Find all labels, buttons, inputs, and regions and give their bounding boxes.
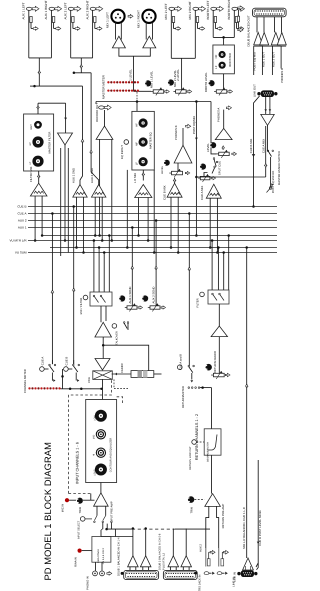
- svg-text:PHONO IN: PHONO IN: [87, 576, 90, 590]
- arrow U11 up: [90, 150, 93, 153]
- wire riaa down legs: [95, 562, 97, 571]
- connector DB25 DSUB IN 1: [124, 570, 159, 579]
- wire riaa up: [100, 530, 102, 537]
- wire dsub1 risers: [132, 529, 134, 556]
- svg-text:PHONES B: PHONES B: [174, 125, 178, 140]
- wire AUX 2 RIGHT feed: [92, 10, 94, 58]
- svg-text:LEVEL: LEVEL: [206, 143, 210, 152]
- bus line AUX 2: [28, 220, 277, 222]
- svg-text:CH 3,4,5 ONLY: CH 3,4,5 ONLY: [102, 547, 105, 564]
- jack tap arrow BOOTH RIGHT: [239, 27, 244, 31]
- op-amp U19 channel amp: [95, 322, 112, 337]
- arrow mix lr up: [245, 384, 248, 387]
- wire AUX 1 LEFT tap: [30, 23, 32, 29]
- arrow AUX1 up: [38, 71, 41, 74]
- jack PHONES A: [226, 106, 231, 110]
- jack tap arrow AUX 1 LEFT: [33, 27, 38, 31]
- svg-text:FADER: FADER: [120, 363, 124, 372]
- wire aux2 send riser: [155, 221, 157, 306]
- wire dsub feed 4: [280, 46, 282, 68]
- svg-text:SPLIT CUE: SPLIT CUE: [219, 161, 222, 175]
- wire filter return out: [64, 145, 66, 241]
- wire AUX2 rail: [74, 72, 91, 74]
- svg-text:MIC / FILTER: MIC / FILTER: [80, 298, 83, 315]
- node mic a: [93, 239, 96, 242]
- pot ch hi: [96, 430, 105, 439]
- wire return trim dash: [195, 499, 205, 501]
- svg-text:RETURN/METER: RETURN/METER: [182, 386, 185, 408]
- node mix lr bus: [245, 246, 248, 249]
- jack tap arrow AUX 2 LEFT: [75, 27, 80, 31]
- wire post eq cont: [195, 177, 197, 236]
- jack J1 AUX 1 LEFT: [26, 7, 32, 10]
- svg-text:AUX 2 OUT: AUX 2 OUT: [271, 52, 275, 67]
- wire stray vert D: [153, 170, 155, 253]
- pot MIX 1 LEVEL: [153, 90, 164, 93]
- op-amp U16 CUE A MIX: [206, 184, 221, 198]
- switch input select a: [94, 516, 97, 521]
- node AUX1 feed: [33, 85, 36, 88]
- wire dsub1 pins: [129, 567, 131, 571]
- connector XLR1 MIX 1 LEFT: [111, 10, 124, 23]
- control return filter knob: [200, 292, 205, 297]
- arrow cue b out: [75, 373, 77, 378]
- pot filter LF: [32, 156, 43, 167]
- switch cue a: [49, 364, 51, 366]
- wire channel amp out: [102, 337, 104, 359]
- wire mic wires: [93, 241, 95, 293]
- svg-text:MIX L,R BALANCED, CUE 1 L,R: MIX L,R BALANCED, CUE 1 L,R: [242, 507, 246, 549]
- node rail posteq: [195, 100, 198, 103]
- arrow link pin b: [269, 109, 272, 111]
- pot PHONES A LEVEL: [219, 152, 230, 155]
- op-amp U2 mix1 R driver: [143, 36, 156, 48]
- box BOOSTER: [213, 45, 235, 74]
- wire select feed line2: [175, 528, 210, 530]
- op-amp U10 AUX 1 SND: [73, 185, 87, 198]
- svg-text:MIX 1 LEFT: MIX 1 LEFT: [106, 12, 110, 28]
- node cm a: [69, 388, 72, 391]
- control mic filter knob: [83, 295, 88, 300]
- op-amp U12 LR MIX: [135, 185, 152, 198]
- wire preamp legs: [96, 506, 98, 515]
- jack PHONO L: [93, 571, 98, 576]
- bus line CUE A: [28, 213, 277, 215]
- jack tap arrow MIX 2 RIGHT: [200, 27, 205, 31]
- switch cue b: [73, 364, 75, 366]
- jack BOOTH RIGHT: [232, 7, 238, 10]
- svg-text:RECORD OUT: RECORD OUT: [95, 103, 99, 122]
- arrow aux2 send: [155, 266, 158, 269]
- wire eq to rail: [136, 102, 138, 112]
- wire MIX 2 RIGHT tap: [197, 23, 199, 29]
- svg-text:MIX 2 LEVEL: MIX 2 LEVEL: [173, 70, 177, 87]
- svg-text:BOOTH RIGHT: BOOTH RIGHT: [227, 0, 231, 20]
- wire rm link: [200, 387, 212, 389]
- op-amp U24 dsub2 rx a: [168, 556, 179, 567]
- jack PHONO R: [100, 571, 105, 576]
- wire mic link: [69, 499, 77, 501]
- svg-text:BOOSTER: BOOSTER: [228, 53, 232, 67]
- wire rec out link: [237, 10, 239, 16]
- svg-text:POST EQ/MIX: POST EQ/MIX: [192, 116, 196, 135]
- svg-text:TRS JACK IN: TRS JACK IN: [199, 575, 202, 591]
- svg-text:TRIM: TRIM: [79, 506, 82, 513]
- node U11 a: [94, 234, 97, 237]
- wire cue a riser: [51, 214, 53, 365]
- node post eq end: [195, 234, 198, 237]
- wire meter dash: [136, 92, 138, 100]
- arrow filter mix up: [37, 175, 40, 178]
- wire cue b post: [256, 460, 258, 567]
- node U15 b: [177, 251, 180, 254]
- wire vca out: [102, 379, 104, 399]
- wire U11 out: [91, 73, 99, 185]
- connector XLR2 MIX 1 RIGHT: [142, 10, 155, 23]
- node BOOTH join: [222, 36, 225, 39]
- node U9 a: [34, 239, 37, 242]
- svg-text:MF: MF: [135, 142, 138, 146]
- op-amp U23 dsub1 rx b: [140, 556, 151, 567]
- svg-text:PD MODEL 1 BLOCK DIAGRAM: PD MODEL 1 BLOCK DIAGRAM: [43, 442, 53, 580]
- node rec leg a: [98, 234, 101, 237]
- wire BOOTH LEFT tap: [214, 23, 216, 29]
- wire BOOTH columns: [212, 10, 214, 37]
- switch input select b: [103, 516, 106, 521]
- pot INPUT TRIM knob: [77, 498, 83, 504]
- jack BOOTH LEFT: [211, 7, 217, 10]
- svg-text:MASTER ASSIGN SWITCH: MASTER ASSIGN SWITCH: [278, 151, 281, 185]
- wire U15 legs: [170, 197, 172, 247]
- node rf b: [217, 246, 220, 249]
- pot SPLIT CUE knob: [200, 164, 206, 170]
- pot MIX 2 LEVEL knob: [168, 79, 174, 85]
- pot AUX 1 SEND: [127, 306, 137, 309]
- control overdrive: [112, 324, 117, 329]
- svg-text:MIX 1 LEVEL: MIX 1 LEVEL: [150, 71, 154, 88]
- svg-text:RETURN LOW CUT: RETURN LOW CUT: [189, 446, 192, 470]
- jack J3 AUX 2 LEFT: [68, 7, 74, 10]
- bus line VU SUM: [28, 252, 277, 254]
- svg-text:CUE A and B: CUE A and B: [180, 354, 183, 370]
- jack J4 AUX 2 RIGHT: [90, 7, 96, 10]
- arrow phones a pot out: [232, 152, 237, 155]
- node mic b: [98, 246, 101, 249]
- wire aux1 send riser: [131, 228, 133, 306]
- jack TRS IN 1: [204, 572, 209, 575]
- pot BOOTH LEVEL knob: [208, 80, 214, 86]
- wire select feed line: [107, 524, 132, 530]
- bus line 5: [43, 235, 277, 237]
- dashed box input channel: [69, 378, 112, 494]
- wire split cue link: [204, 173, 208, 177]
- pot ch low: [95, 464, 107, 476]
- svg-text:DSUB 1 BALANCED IN CH 1-4: DSUB 1 BALANCED IN CH 1-4: [117, 537, 120, 576]
- svg-text:CUE A MIX: CUE A MIX: [261, 139, 265, 153]
- svg-text:MASTER METER: MASTER METER: [102, 74, 106, 99]
- bus line 7: [50, 247, 277, 249]
- wire booster out: [223, 74, 225, 90]
- node U10 b: [82, 251, 85, 254]
- wire cue b post in: [257, 563, 259, 570]
- arrow U10 up: [81, 139, 84, 142]
- svg-text:POST EQ MIX: POST EQ MIX: [253, 52, 257, 71]
- box channel EQ: [86, 400, 117, 483]
- node U9 b: [41, 234, 44, 237]
- arrow return cue down: [190, 380, 193, 382]
- jack MIX 2 RIGHT: [193, 7, 199, 10]
- switch EQ IN/OUT: [124, 140, 129, 145]
- wire rlc dash: [196, 441, 204, 443]
- node d1b: [144, 527, 147, 530]
- wire U9 legs: [34, 196, 36, 241]
- pot RETURN FADER: [213, 373, 224, 377]
- LED row channel: [28, 387, 30, 389]
- pot master HF: [139, 118, 148, 127]
- wire XLR2 pins: [145, 22, 147, 39]
- node cm b: [80, 388, 83, 391]
- node select feed: [105, 528, 108, 531]
- svg-text:RIAA IN: RIAA IN: [74, 557, 77, 567]
- wire trs2: [218, 548, 220, 567]
- wire eqbox to preamp: [100, 483, 102, 495]
- box MIC FILTER: [90, 292, 112, 306]
- wire AUX1 rail: [35, 85, 83, 87]
- op-amp U18 return amp: [211, 326, 227, 337]
- switch overdrive: [123, 322, 125, 324]
- node dsub2 end: [194, 572, 197, 575]
- wire mic box down: [100, 306, 102, 322]
- wire AUX1 drop: [38, 58, 40, 86]
- svg-text:PHONES A: PHONES A: [217, 108, 221, 122]
- op-amp U15 CUE B MIX: [167, 183, 182, 197]
- node rm bus: [188, 212, 191, 215]
- op-amp U22 dsub1 rx a: [128, 556, 139, 567]
- pot AUX 2 SEND knob: [142, 295, 148, 301]
- svg-text:HP: HP: [29, 142, 32, 146]
- node rf c: [222, 251, 225, 254]
- node cue a bus: [51, 212, 54, 215]
- box RIAA: [92, 537, 111, 563]
- wire AUX2 join: [71, 57, 93, 59]
- dashed box bottom entry: [69, 493, 91, 495]
- svg-text:BOOTH LEFT: BOOTH LEFT: [206, 0, 210, 19]
- op-amp U8 filter return: [58, 133, 73, 145]
- jack arrow trs 2: [223, 550, 228, 554]
- wire mix1 drivers join: [119, 48, 150, 56]
- arrow AUX2 up: [80, 65, 83, 68]
- pot AUX 1 SEND knob: [119, 295, 125, 301]
- svg-text:INPUT SELECT: INPUT SELECT: [78, 520, 81, 539]
- svg-text:CHANNEL METER: CHANNEL METER: [23, 369, 27, 393]
- svg-text:AUX 1 OUT: AUX 1 OUT: [261, 52, 265, 67]
- svg-text:MIX 1 RIGHT: MIX 1 RIGHT: [137, 10, 141, 28]
- op-amp U1 mix1 L driver: [112, 36, 125, 48]
- svg-text:AUX 2 LEFT: AUX 2 LEFT: [64, 2, 68, 19]
- svg-text:DSUB BALANCED OUT: DSUB BALANCED OUT: [247, 15, 251, 47]
- wire BOOTH RIGHT tap: [236, 23, 238, 29]
- switch master assign: [267, 150, 269, 152]
- wire cue b stub: [68, 368, 72, 370]
- wire BOOTH drop: [223, 37, 225, 45]
- node aux2 bus: [155, 219, 158, 222]
- jack J2 AUX 1 RIGHT: [49, 7, 55, 10]
- control CUE B: [64, 367, 69, 372]
- arrow booth out: [228, 90, 233, 93]
- svg-text:BOOTH LEVEL: BOOTH LEVEL: [204, 72, 208, 92]
- svg-text:FILTER: FILTER: [197, 298, 200, 307]
- switch mic filter: [94, 296, 99, 303]
- svg-text:INPUT CHANNELS 1 - 6: INPUT CHANNELS 1 - 6: [76, 442, 80, 484]
- svg-text:CONTOUR AND EQUALIZER: CONTOUR AND EQUALIZER: [110, 438, 113, 473]
- node U10 a: [75, 246, 78, 249]
- dashed stub right: [117, 397, 123, 404]
- wire select drops: [110, 523, 112, 530]
- arrow split cue out: [211, 176, 215, 179]
- node post eq join: [195, 176, 198, 179]
- wire dsub feed 3: [271, 46, 273, 75]
- node mic d: [108, 234, 111, 237]
- pot RETURN TRIM knob: [188, 496, 195, 503]
- wire U12 legs: [138, 198, 140, 236]
- arrow phono: [107, 572, 112, 576]
- resistor REC OUT: [237, 16, 239, 22]
- jack tap arrow XLR1: [128, 14, 133, 18]
- svg-text:AUX 2 RIGHT: AUX 2 RIGHT: [85, 0, 89, 19]
- box MASTER FILTER: [24, 114, 54, 171]
- arrow aux1 pot out: [138, 306, 142, 309]
- svg-text:TALKOVER: TALKOVER: [116, 331, 119, 345]
- wire riaa link: [82, 550, 92, 552]
- jack MIX 2 LEFT: [169, 7, 175, 10]
- wire AUX 2 RIGHT tap: [94, 23, 96, 29]
- wire U13 base drop: [177, 163, 179, 171]
- wire U10 out: [80, 86, 83, 184]
- op-amp U13 phones B: [174, 145, 192, 163]
- node U16 a: [209, 246, 212, 249]
- op-amp U9 FILTER MIX: [30, 183, 47, 196]
- node filter return node: [64, 239, 67, 242]
- wire lower feed: [114, 529, 116, 536]
- jack tap arrow MIX 2 LEFT: [176, 27, 181, 31]
- jack tap arrow BOOTH LEFT: [218, 27, 223, 31]
- svg-text:MIX 2 LEFT: MIX 2 LEFT: [164, 3, 168, 19]
- op-amp U21 INPUT PRE-AMP: [94, 493, 109, 506]
- pot MIX 2 LEVEL: [176, 90, 187, 93]
- svg-text:MIC IN: MIC IN: [62, 504, 65, 513]
- arrow phones a in: [222, 146, 225, 149]
- arrow cue b down: [252, 154, 256, 157]
- wire cue a rail: [198, 176, 266, 178]
- svg-text:AUX 1 SND: AUX 1 SND: [72, 168, 76, 183]
- node rf a: [211, 239, 214, 242]
- box MASTER EQ: [132, 111, 154, 170]
- svg-text:LP: LP: [29, 161, 32, 164]
- node U12 a: [137, 234, 140, 237]
- jack tap arrow AUX 2 RIGHT: [97, 27, 102, 31]
- wire AUX 1 RIGHT feed: [50, 10, 52, 58]
- wire AUX 2 LEFT tap: [72, 23, 74, 29]
- arrow rm up: [188, 267, 191, 270]
- svg-text:MASTER EQ: MASTER EQ: [148, 132, 152, 149]
- box return low cut: [204, 429, 221, 455]
- wire phones b up: [182, 128, 184, 145]
- wire cue a stub: [44, 368, 48, 370]
- op-amp U26 RETURN PRE-AMP: [205, 494, 221, 507]
- wire channel meter line: [61, 388, 102, 390]
- switch return cue: [188, 365, 190, 367]
- svg-text:LF: LF: [135, 162, 138, 165]
- node riaa in dot: [78, 549, 82, 553]
- wire U11 legs: [94, 197, 96, 235]
- wire AUX1 join: [29, 57, 52, 59]
- op-amp U5 dsub driver B: [271, 32, 280, 45]
- resistor trs 2: [221, 559, 224, 566]
- op-amp U11 AUX 2 SND: [92, 185, 106, 198]
- svg-text:WET: WET: [30, 124, 33, 130]
- svg-text:CUE B: CUE B: [65, 357, 69, 366]
- pot RETURN FADER knob: [205, 364, 212, 371]
- control CUE A: [40, 367, 45, 372]
- op-amp U14 phones A: [215, 128, 232, 139]
- wire rf box down: [218, 304, 220, 326]
- wire select link: [85, 518, 92, 520]
- node mic c: [103, 251, 106, 254]
- svg-text:LEVEL: LEVEL: [93, 468, 96, 476]
- pot PHONES B LEVEL: [172, 171, 183, 175]
- connector DB9 LINK IN: [237, 572, 240, 575]
- arrow return fader out: [225, 373, 230, 376]
- wire phones a up: [223, 110, 225, 129]
- svg-text:VCA: VCA: [87, 377, 91, 383]
- svg-text:HF: HF: [135, 123, 138, 127]
- svg-text:LOW: LOW: [93, 415, 96, 421]
- svg-text:DSUB 2 BALANCED IN CH 5-6: DSUB 2 BALANCED IN CH 5-6: [159, 533, 162, 570]
- wire return mid: [211, 455, 213, 493]
- wire master rail: [96, 101, 211, 103]
- svg-text:CUE A: CUE A: [41, 357, 45, 366]
- svg-text:CUE B MIX: CUE B MIX: [249, 139, 253, 154]
- wire cue b mix in: [174, 178, 176, 184]
- svg-text:CUE A MIX: CUE A MIX: [200, 186, 204, 200]
- wire filter up: [37, 103, 39, 114]
- svg-text:CUE B POST LEVEL SEND: CUE B POST LEVEL SEND: [258, 510, 262, 545]
- pot BOOTH LEVEL: [216, 90, 227, 93]
- wire AUX 1 LEFT feed: [28, 10, 30, 58]
- svg-text:TRIM: TRIM: [191, 506, 194, 513]
- wire MIX2 drop: [181, 58, 183, 89]
- node cue join: [61, 375, 64, 378]
- svg-text:CUE B MIX: CUE B MIX: [163, 185, 167, 200]
- node U15 a: [170, 246, 173, 249]
- arrow aux2 pot out: [161, 306, 165, 309]
- arrow link pin a: [264, 109, 267, 111]
- svg-text:LEVEL: LEVEL: [161, 165, 164, 174]
- control INPUT SELECT: [80, 517, 85, 522]
- node ch junction: [102, 344, 105, 347]
- wire dsub feed 1: [253, 46, 255, 75]
- wire AUX 2 LEFT feed: [70, 10, 72, 58]
- resistor R4: [94, 17, 96, 23]
- svg-text:RIAA STAGE: RIAA STAGE: [97, 549, 100, 563]
- op-amp U20 vca amp: [95, 359, 110, 371]
- jack arrow trs 1: [210, 550, 215, 554]
- svg-text:MIX 2 RIGHT: MIX 2 RIGHT: [188, 1, 192, 19]
- wire XLR1 pins: [115, 22, 117, 39]
- op-amp U7 record amp: [96, 126, 113, 139]
- jack TRS IN 2: [217, 572, 222, 575]
- wire return filter wires: [211, 241, 213, 291]
